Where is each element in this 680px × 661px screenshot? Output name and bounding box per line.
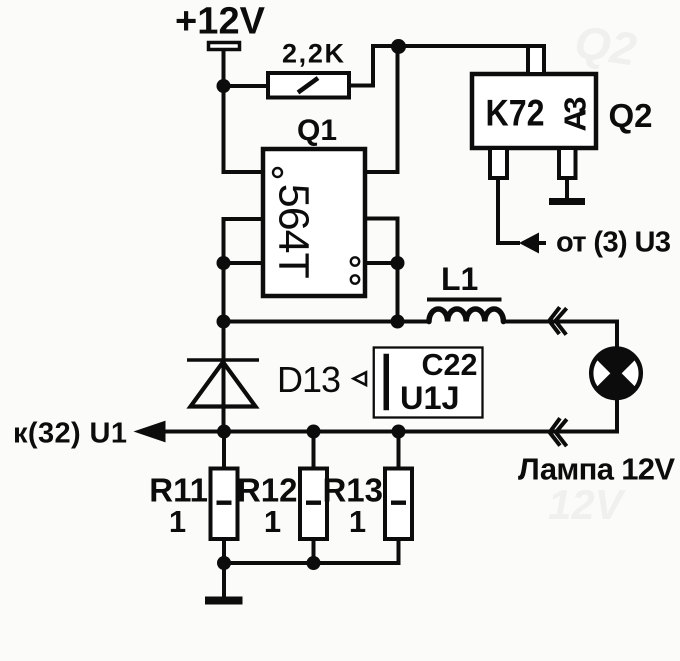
wire: R13 bottom lead <box>397 539 401 563</box>
Q2 top pin <box>528 46 544 74</box>
svg-text:U1J: U1J <box>400 380 460 416</box>
junction: right vertical at bottom bus <box>391 315 405 329</box>
svg-text:Лампа 12V: Лампа 12V <box>518 452 675 487</box>
resistor R13 body <box>385 469 412 540</box>
resistor R12 dash mark <box>306 501 321 505</box>
junction: bottom bus at R12 <box>307 556 321 570</box>
wire: Q1 left pin2 <box>224 219 264 432</box>
wire: R13 top lead <box>397 432 401 469</box>
svg-text:A3: A3 <box>558 97 593 132</box>
diode D13 cathode bar <box>187 358 259 362</box>
junction: left vertical at bottom bus <box>217 315 231 329</box>
resistor 2,2K body <box>268 73 349 98</box>
junction: Q1 left pin3 <box>217 256 231 270</box>
svg-text:C22: C22 <box>422 348 478 382</box>
wire: junction A to resistor 2,2K <box>224 84 269 88</box>
svg-text:R11: R11 <box>149 472 208 509</box>
svg-text:Q2: Q2 <box>572 15 640 75</box>
Q2 bottom-left pin <box>490 148 507 178</box>
resistor R13 dash mark <box>391 501 406 505</box>
diode D13 anode triangle <box>191 362 256 407</box>
svg-text:Q2: Q2 <box>609 97 653 134</box>
ground (under Q2) <box>549 198 585 205</box>
lamp HL1 (Лампа 12V) <box>591 349 641 399</box>
resistor R12 body <box>300 469 327 540</box>
junction: bottom bus at R11/ground <box>217 556 231 570</box>
svg-text:L1: L1 <box>441 261 478 297</box>
wire: top bus down to Q1 right pin1 <box>365 46 398 172</box>
svg-text:2,2K: 2,2K <box>282 39 345 69</box>
svg-text:1: 1 <box>349 504 366 539</box>
wire: Q2 right pin to ground <box>565 178 569 199</box>
junction: top bus node <box>391 39 406 54</box>
arrowhead к(32) U1 <box>134 421 166 443</box>
svg-text:1: 1 <box>264 504 281 539</box>
wire: R11 top lead <box>222 432 226 469</box>
power symbol +12V plate <box>209 43 240 50</box>
svg-text:Q1: Q1 <box>297 114 337 147</box>
wire: bottom bus of Q1 to coil <box>224 320 430 324</box>
cathode band in marking box <box>384 354 390 411</box>
wire: arrow stub <box>538 241 546 245</box>
resistor R11 dash mark <box>217 501 232 505</box>
svg-text:D13: D13 <box>277 359 341 400</box>
svg-text:R13: R13 <box>322 472 383 509</box>
svg-text:от (3) U3: от (3) U3 <box>556 227 671 259</box>
junction: +12V node <box>217 79 231 93</box>
svg-text:K72: K72 <box>486 93 545 134</box>
wire: bottom bus <box>224 561 401 565</box>
wire: R11 bottom lead <box>222 539 226 563</box>
svg-text:+12V: +12V <box>175 1 266 43</box>
inductor L1 bar <box>427 298 502 302</box>
Q1 right index circles <box>351 257 359 265</box>
junction: Q1 right pin3 <box>391 256 405 270</box>
D13 marking box C22/U1J <box>374 348 483 418</box>
resistor R11 body <box>211 469 238 540</box>
wire: Q1 left pin3 <box>224 261 264 265</box>
svg-text:12V: 12V <box>548 481 626 528</box>
Q2 bottom-right pin <box>559 148 576 178</box>
svg-text:1: 1 <box>169 504 186 539</box>
junction: node к(32)U1 at R13 <box>392 425 406 439</box>
wire: Q2 left pin down and to arrow <box>498 178 520 243</box>
wire: left vertical from junction A to Q1 pin1 <box>224 86 264 172</box>
wire: Q1 right pin3 <box>365 261 398 265</box>
junction: node к(32)U1 at R11 <box>217 425 231 439</box>
inductor L1 coil <box>429 309 503 322</box>
pointer triangle for D13 marking <box>354 372 367 385</box>
resistor 2,2K slash mark <box>298 78 318 93</box>
junction: node к(32)U1 at R12 <box>307 425 321 439</box>
transistor Q2 body <box>472 74 596 148</box>
wire: lamp bottom to main horizontal <box>160 397 617 432</box>
wire: +12V stem <box>222 50 226 86</box>
wire: R12 bottom lead <box>312 539 316 563</box>
svg-text:564T: 564T <box>270 184 318 279</box>
svg-text:к(32) U1: к(32) U1 <box>13 418 127 450</box>
connector chevrons lower <box>550 418 567 446</box>
ground (bottom rail) <box>205 597 243 605</box>
wire: ground stem <box>222 563 226 597</box>
svg-text:R12: R12 <box>237 472 298 509</box>
wire: R12 top lead <box>312 432 316 469</box>
wire: Q1 right pin2 <box>365 219 398 323</box>
IC Q1 body <box>263 149 365 296</box>
arrowhead "от (3) U3" <box>519 233 539 254</box>
wire: coil to lamp top <box>504 322 618 350</box>
connector chevrons upper <box>549 307 566 335</box>
wire: resistor right to top bus <box>349 46 544 86</box>
Q1 pin-1 index circle <box>273 168 282 177</box>
